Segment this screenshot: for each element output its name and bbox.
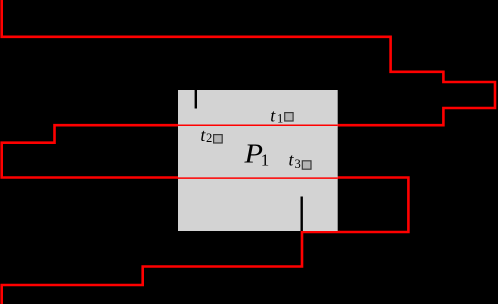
svg-text:2: 2 (206, 131, 212, 145)
svg-text:1: 1 (277, 111, 283, 125)
node t1 square (285, 113, 293, 121)
bottom tick (301, 197, 303, 232)
wire thin red line upper crossing (178, 124, 338, 126)
wire thin red line lower crossing (178, 177, 338, 179)
svg-text:1: 1 (261, 150, 270, 169)
node P1 gray rectangle (178, 90, 338, 231)
top tick (195, 90, 197, 109)
node t3 square (302, 161, 311, 169)
node t2 square (214, 135, 223, 143)
svg-text:3: 3 (295, 157, 301, 171)
